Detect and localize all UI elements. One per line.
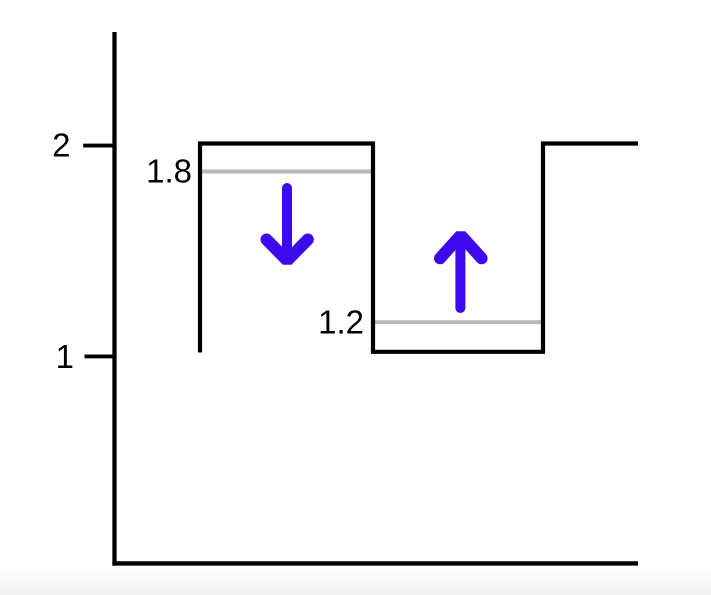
- square wave: [200, 144, 638, 353]
- svg-text:1.8: 1.8: [146, 153, 192, 190]
- bottom gradient band: [0, 568, 711, 595]
- up arrow (blue): [440, 235, 482, 308]
- threshold line 1.2 (gray): [375, 320, 541, 324]
- svg-text:1.2: 1.2: [318, 304, 364, 341]
- y-axis: [112, 32, 116, 566]
- x-axis: [112, 561, 638, 565]
- tick y=2: [83, 144, 116, 148]
- svg-text:2: 2: [52, 127, 70, 164]
- tick y=1: [85, 354, 117, 358]
- down arrow (blue): [267, 188, 308, 261]
- threshold line 1.8 (gray): [202, 170, 371, 174]
- svg-text:1: 1: [56, 338, 74, 375]
